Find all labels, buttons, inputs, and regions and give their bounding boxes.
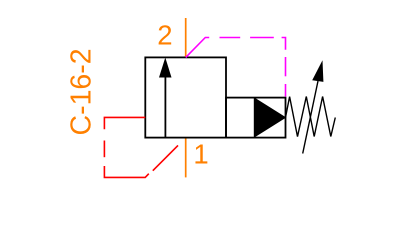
svg-text:1: 1 [193,138,208,169]
red drain line solid corner [104,117,145,129]
spring [286,97,336,137]
port 2 wire [185,18,187,57]
magenta pilot line dash 4 [285,57,287,76]
magenta pilot line dash 1 [186,38,210,58]
red drain line dash 2 [103,141,105,158]
red drain line diagonal dash [153,145,178,170]
red drain line bottom corner dash [104,166,148,177]
pilot box [226,98,286,138]
adjustment arrow shaft [303,81,318,154]
check triangle [254,98,285,137]
flow arrow shaft [164,70,166,138]
port 1 wire [185,138,187,178]
flow arrow head [159,58,172,78]
magenta pilot line dash 3 [250,37,274,39]
magenta pilot line corner dash [282,38,286,50]
magenta pilot line dash 5 [285,84,287,97]
magenta pilot line dash 2 [220,37,241,39]
svg-text:C-16-2: C-16-2 [65,48,97,135]
valve body box [145,57,226,137]
adjustment arrow head [312,60,323,82]
svg-text:2: 2 [157,20,172,51]
